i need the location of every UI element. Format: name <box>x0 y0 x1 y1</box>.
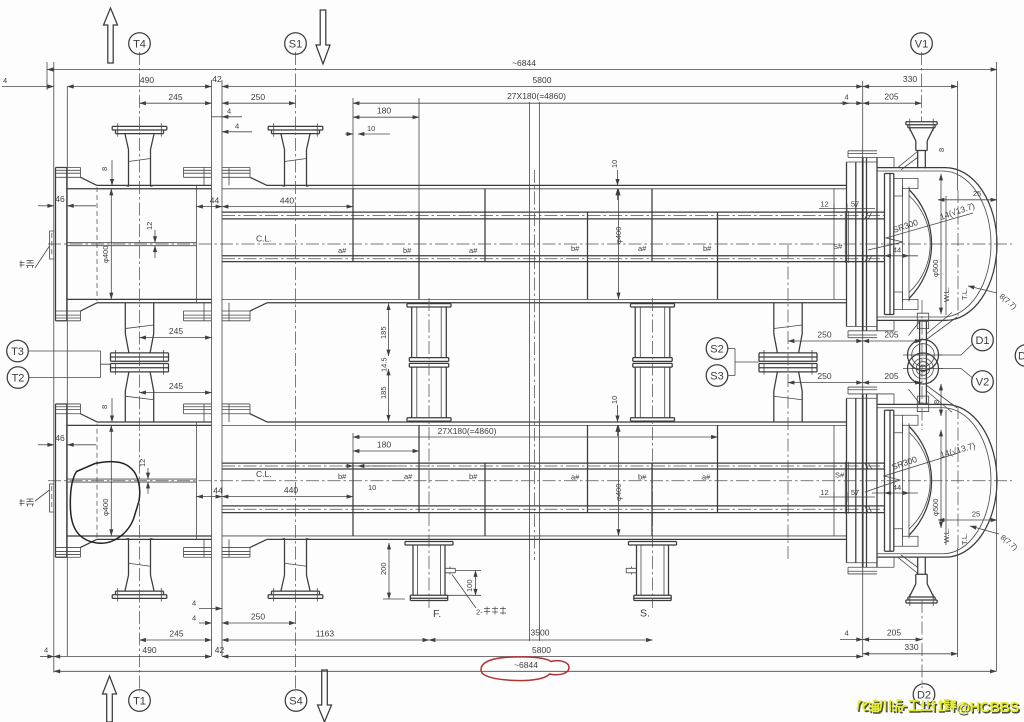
svg-text:a#: a# <box>469 246 478 255</box>
connecting pipe S weld <box>774 325 802 329</box>
nozzle T4 base fillet <box>125 185 155 186</box>
drain center ticks <box>903 355 943 369</box>
girth flange channel side stack bottom <box>184 303 212 321</box>
leader S2 S3 <box>728 349 759 376</box>
dim 200 support <box>388 543 390 599</box>
dim 12 57 head bottom <box>819 496 875 498</box>
dim 5800 bottom row <box>222 656 863 658</box>
connecting pipe T bolt ticks <box>116 350 164 361</box>
extension baffle1 top <box>353 98 419 213</box>
centerline S1-S4 <box>295 52 297 692</box>
dim 205 head top <box>863 102 922 104</box>
extension line x67 <box>66 87 68 657</box>
dim 44 head bottom <box>885 492 910 494</box>
svg-text:V2: V2 <box>976 377 989 389</box>
svg-text:4: 4 <box>845 93 849 102</box>
watermark <box>857 699 1020 718</box>
extension line left cover face <box>53 62 55 673</box>
svg-text:440: 440 <box>284 485 298 495</box>
svg-text:44: 44 <box>213 486 223 496</box>
svg-text:b#: b# <box>703 244 712 253</box>
circle S1 <box>285 33 307 55</box>
dim 250 mid lower <box>788 382 863 384</box>
dim 12 57 head top <box>819 208 875 210</box>
svg-text:490: 490 <box>140 75 154 85</box>
svg-text:42: 42 <box>215 645 225 655</box>
nozzle S1 flange <box>268 126 323 133</box>
head girth flange shell side <box>847 162 856 327</box>
dim 4 bottom b <box>199 622 212 624</box>
dim 10 bottom vessel <box>345 465 353 467</box>
svg-text:φ400: φ400 <box>101 246 110 263</box>
connecting pipe S upper <box>774 303 802 353</box>
svg-text:250: 250 <box>251 612 265 622</box>
vessel hardware group (top vessel, mirrored for bottom) <box>56 119 997 363</box>
dim 10 top <box>345 133 353 135</box>
nozzle V1 flange <box>906 122 937 128</box>
nozzle T4 neck <box>125 134 154 187</box>
riser gusset left <box>909 322 920 336</box>
svg-text:4: 4 <box>192 614 196 623</box>
TL line top <box>957 190 959 318</box>
svg-text:T4: T4 <box>133 39 146 51</box>
svg-text:W.L.: W.L. <box>942 528 951 543</box>
support S base <box>629 542 677 601</box>
circle D1 <box>972 329 994 351</box>
drain flange circles lower <box>908 353 939 384</box>
circle S3 <box>706 365 728 387</box>
extension line left outer <box>46 62 48 90</box>
svg-text:10: 10 <box>367 124 375 133</box>
pass partition plate <box>67 243 197 246</box>
svg-text:T3: T3 <box>11 346 24 358</box>
svg-text:440: 440 <box>280 196 294 206</box>
svg-text:14.5: 14.5 <box>380 357 389 372</box>
nozzle V1 neck <box>909 128 933 169</box>
extension right outer <box>996 62 998 671</box>
svg-text:200: 200 <box>379 562 388 575</box>
TL line bottom <box>957 406 959 548</box>
centerline T4-T1 <box>139 52 141 692</box>
baffle b1 <box>418 212 420 299</box>
svg-text:V1: V1 <box>915 39 928 51</box>
dim 46 top <box>38 205 54 207</box>
svg-text:b#: b# <box>469 472 478 481</box>
svg-text:245: 245 <box>168 92 182 102</box>
floating tubesheet <box>885 174 894 315</box>
svg-text:330: 330 <box>904 642 918 652</box>
svg-text:330: 330 <box>903 74 917 84</box>
rod end plates <box>845 211 848 263</box>
svg-text:25: 25 <box>972 510 980 519</box>
floating head ring <box>903 187 910 302</box>
svg-text:S#: S# <box>835 471 845 480</box>
dim 3500 bottom row <box>429 639 653 641</box>
svg-text:φ400: φ400 <box>101 499 110 516</box>
svg-text:42: 42 <box>212 74 222 84</box>
floating head clamp bottom <box>894 292 918 310</box>
hollow arrow down bottom <box>318 670 332 722</box>
girth flange channel side stack top <box>184 168 212 186</box>
dim 245 top <box>140 102 212 104</box>
svg-text:44: 44 <box>210 196 220 206</box>
svg-text:D: D <box>1018 351 1024 363</box>
main centerline top vessel <box>48 243 1012 245</box>
svg-text:D2: D2 <box>917 690 931 702</box>
svg-text:27X180(=4860): 27X180(=4860) <box>507 91 566 101</box>
dim phi400 top right <box>618 189 620 299</box>
dim 205 mid upper <box>863 340 922 342</box>
dim phi500 top <box>940 174 942 314</box>
circle T3 <box>7 340 29 362</box>
svg-text:φ500: φ500 <box>931 260 940 277</box>
nameplate text bottom <box>20 499 35 507</box>
center plates long <box>530 102 540 641</box>
girth flange shell side stack bottom <box>222 303 250 321</box>
tie rod centerlines dashed <box>222 216 884 259</box>
dim 12 partition top <box>154 230 156 243</box>
dim 44 shell top <box>197 206 223 208</box>
svg-text:12: 12 <box>138 459 147 467</box>
hollow arrow up top <box>104 8 118 63</box>
svg-text:2-: 2- <box>476 608 483 617</box>
svg-text:C.L.: C.L. <box>256 234 272 244</box>
rod end hatch <box>864 212 875 262</box>
hollow arrow down top <box>316 10 330 64</box>
shell inner lines <box>222 189 847 300</box>
circle D2 <box>913 684 935 706</box>
baffle a1 <box>352 189 354 262</box>
dim 1163 bottom row <box>222 639 429 641</box>
sealing baffle S <box>833 189 835 300</box>
nozzle S1 weld seam <box>285 159 307 162</box>
svg-text:245: 245 <box>169 326 183 336</box>
svg-text:180: 180 <box>377 106 391 116</box>
circle T2 <box>7 367 29 389</box>
extension TL x957 <box>957 81 959 657</box>
svg-text:~6844: ~6844 <box>512 58 536 68</box>
support F base <box>405 542 453 601</box>
svg-text:44: 44 <box>893 483 901 492</box>
dim 440 bottom vessel <box>222 496 353 498</box>
grounding pad glyphs <box>484 607 506 615</box>
centerline support S <box>652 298 654 608</box>
dim 4 gap a <box>212 116 223 118</box>
svg-text:245: 245 <box>169 381 183 391</box>
head girth flange head side <box>862 158 864 331</box>
circle S4 <box>285 690 307 712</box>
circle V2 <box>972 371 994 393</box>
dim 46 bottom <box>38 444 54 446</box>
dim 4 gap b <box>222 131 252 133</box>
svg-text:46: 46 <box>55 433 65 443</box>
svg-text:a#: a# <box>702 473 711 482</box>
svg-text:5800: 5800 <box>532 645 551 655</box>
label 8(7.7) bottom <box>970 526 999 534</box>
main centerline bottom vessel <box>48 480 1012 482</box>
leader grounding lug <box>452 575 476 609</box>
svg-text:T.L.: T.L. <box>960 288 969 300</box>
black circle annotation on phi400 <box>70 462 139 544</box>
svg-text:b#: b# <box>338 472 347 481</box>
nameplate bottom <box>50 484 55 512</box>
circle S2 <box>706 338 728 360</box>
svg-text:4: 4 <box>192 599 196 608</box>
dim 5800 top <box>222 86 863 88</box>
dim 185 chain <box>388 304 390 356</box>
dim 4 head top <box>840 102 863 104</box>
nozzle S1 base fillet <box>281 185 311 186</box>
extension baffle bottom vessel <box>352 433 354 464</box>
svg-text:b#: b# <box>403 246 412 255</box>
dim 27X180 top <box>353 102 849 104</box>
head flange bolt stack top <box>847 151 878 162</box>
extension pair x211/x222 <box>212 80 223 656</box>
leader V2 <box>939 369 973 378</box>
dim 440 shell top <box>222 206 353 208</box>
dim 490 bottom row <box>40 656 54 658</box>
svg-text:5800: 5800 <box>533 75 552 85</box>
svg-text:S1: S1 <box>289 39 302 51</box>
dim 8 top left <box>111 160 113 185</box>
dim phi400 top left <box>110 189 112 299</box>
dim 250 top <box>222 102 296 104</box>
svg-text:~6844: ~6844 <box>514 660 538 670</box>
baffle b2 <box>587 212 589 299</box>
dim 490 top <box>67 86 211 88</box>
girth flange shell side stack top <box>222 168 250 186</box>
svg-text:8: 8 <box>937 148 946 152</box>
nozzle V1 gusset <box>898 152 918 170</box>
WL line top <box>945 196 947 315</box>
dim 44 shell bottom vessel <box>197 496 223 498</box>
svg-text:250: 250 <box>817 330 831 340</box>
dim row B left 4 <box>2 86 54 88</box>
centerline S2S3 pipe <box>787 245 789 560</box>
svg-text:44: 44 <box>893 246 901 255</box>
dim phi500 bottom <box>940 430 942 528</box>
dim 330 bottom right <box>863 653 958 655</box>
channel tubesheet dashed <box>96 187 98 301</box>
centerline D2 <box>921 600 923 688</box>
svg-text:12: 12 <box>145 222 154 230</box>
centerline support F <box>428 298 430 608</box>
stationary tubesheet line <box>196 185 198 302</box>
svg-text:@HCBBS: @HCBBS <box>956 700 1020 716</box>
head flange ring step <box>877 158 894 331</box>
svg-text:3500: 3500 <box>531 628 550 638</box>
floating head dish outer <box>909 190 932 299</box>
head bottom riser pipe <box>920 320 927 362</box>
svg-text:10: 10 <box>610 160 619 168</box>
dim phi400 bottom left <box>110 425 112 535</box>
channel barrel <box>67 185 212 302</box>
svg-text:205: 205 <box>887 628 901 638</box>
head dome outer <box>946 168 997 321</box>
connecting pipe S flange upper <box>759 353 817 361</box>
dim row 6844 top <box>47 69 997 71</box>
SR300 leader bottom <box>865 453 958 492</box>
svg-text:C.L.: C.L. <box>256 469 272 479</box>
dim 27X180 bottom vessel <box>353 436 718 438</box>
SR300 leader <box>868 213 973 250</box>
support column 1 upper <box>407 304 451 358</box>
svg-text:12: 12 <box>820 488 828 497</box>
dim 6844 bottom row <box>54 670 997 672</box>
baffle b3 <box>717 212 719 299</box>
center dashline <box>534 170 536 560</box>
svg-text:φ400: φ400 <box>614 484 623 501</box>
connecting pipe S bolt ticks <box>764 350 812 361</box>
svg-text:12: 12 <box>820 200 828 209</box>
svg-text:4: 4 <box>235 122 239 131</box>
svg-text:a#: a# <box>638 244 647 253</box>
svg-text:a#: a# <box>338 246 347 255</box>
nozzle T4 weld seam <box>129 159 151 162</box>
circle T4 <box>129 33 151 55</box>
floating head dish inner <box>909 196 930 293</box>
svg-text:S#: S# <box>833 242 843 251</box>
channel hub slope top <box>81 177 98 311</box>
nameplate top <box>50 231 55 259</box>
WL line bottom <box>945 410 947 545</box>
svg-text:185: 185 <box>379 326 388 339</box>
circle V1 <box>911 33 933 55</box>
dim 10 shell thk top <box>617 170 619 185</box>
support column 2 mid flange <box>633 358 672 362</box>
nozzle S1 neck <box>281 134 310 187</box>
svg-text:180: 180 <box>377 440 391 450</box>
head dome inner <box>943 171 991 317</box>
svg-text:57: 57 <box>851 200 859 209</box>
svg-text:S3: S3 <box>710 371 723 383</box>
svg-text:S4: S4 <box>289 696 302 708</box>
svg-text:b#: b# <box>571 244 580 253</box>
dim 250 bottom row <box>222 622 296 624</box>
connecting pipe T flange upper <box>111 353 169 361</box>
leader T3 T2 <box>28 351 110 378</box>
dim 25 head bottom <box>938 519 997 521</box>
dim 10 shell thk bottom <box>617 405 619 422</box>
svg-text:4: 4 <box>227 107 231 116</box>
support S lug <box>626 567 636 575</box>
connecting pipe T upper <box>125 303 153 353</box>
baffle a3 <box>651 189 653 262</box>
head flange bolt stack bottom <box>847 327 878 338</box>
label 8(7.7) top <box>968 286 997 293</box>
dim phi400 bottom right <box>618 425 620 535</box>
head barrel <box>877 168 946 321</box>
dim 180 top <box>353 116 419 118</box>
svg-text:T1: T1 <box>133 696 146 708</box>
svg-text:205: 205 <box>884 92 898 102</box>
drain flange circles upper <box>908 340 939 371</box>
dim 205 mid lower <box>863 382 922 384</box>
svg-text:b#: b# <box>638 473 647 482</box>
circle D edge <box>1015 345 1024 367</box>
svg-text:S2: S2 <box>710 344 723 356</box>
svg-text:T2: T2 <box>12 373 25 385</box>
tie rod upper pair <box>222 212 885 219</box>
nozzle T4 bolt ticks <box>118 123 162 136</box>
centerline V1 <box>921 52 923 122</box>
baffle a2 <box>484 189 486 262</box>
centerline riser <box>921 300 923 430</box>
svg-text:S.: S. <box>640 608 650 620</box>
svg-text:T.L.: T.L. <box>960 533 969 545</box>
dim 180 bottom vessel <box>353 450 419 452</box>
channel cover flange left <box>56 168 67 321</box>
svg-text:10: 10 <box>610 396 619 404</box>
svg-text:205: 205 <box>884 330 898 340</box>
red circle annotation around 6844 <box>481 657 569 681</box>
svg-text:25: 25 <box>973 189 981 198</box>
connecting pipe T weld <box>125 325 153 329</box>
support F lug <box>445 567 455 575</box>
nozzle V1 bolt ticks <box>910 119 933 131</box>
svg-text:205: 205 <box>884 371 898 381</box>
svg-text:8: 8 <box>100 405 109 409</box>
svg-text:46: 46 <box>55 194 65 204</box>
shell outer lines <box>267 185 847 302</box>
support column 1 mid flange <box>409 358 448 362</box>
dim 8 riser <box>940 384 942 416</box>
dim 245 mid lower <box>140 392 212 394</box>
nameplate text top <box>20 261 35 269</box>
channel cover bolt stack bottom <box>56 311 81 321</box>
svg-text:8: 8 <box>100 167 109 171</box>
svg-text:φ400: φ400 <box>614 227 623 244</box>
leader D1 <box>939 345 973 356</box>
svg-text:a#: a# <box>404 472 413 481</box>
bottom dims layer <box>38 396 1020 672</box>
svg-text:W.L.: W.L. <box>942 287 951 302</box>
svg-text:250: 250 <box>817 371 831 381</box>
svg-text:φ500: φ500 <box>931 499 940 516</box>
dim 245 bottom row <box>140 639 212 641</box>
dim 12 partition bottom <box>147 468 149 479</box>
extension head weld x862 <box>862 81 864 657</box>
svg-text:27X180(=4860): 27X180(=4860) <box>438 426 497 436</box>
svg-text:4: 4 <box>845 629 849 638</box>
nozzle T4 flange <box>112 126 167 133</box>
dim 8 bottom left <box>111 398 113 422</box>
svg-text:a#: a# <box>571 473 580 482</box>
shell hub slope <box>250 177 267 311</box>
tie rod lower pair <box>222 256 885 262</box>
riser gusset right <box>926 313 957 340</box>
circle T1 <box>129 690 151 712</box>
svg-text:1163: 1163 <box>316 629 335 639</box>
dim 250 mid upper <box>788 340 863 342</box>
svg-text:250: 250 <box>251 92 265 102</box>
dim 25 head top <box>938 199 997 201</box>
floating head clamp top <box>894 179 918 197</box>
svg-text:57: 57 <box>851 488 859 497</box>
svg-text:4: 4 <box>3 76 7 85</box>
nozzle S1 bolt ticks <box>274 123 318 136</box>
svg-text:100: 100 <box>465 579 474 592</box>
dim 44 head <box>885 255 910 257</box>
svg-text:F.: F. <box>433 608 441 620</box>
riser flange pair <box>917 313 928 328</box>
dim 4 bottom a <box>199 608 222 610</box>
svg-text:185: 185 <box>379 386 388 399</box>
svg-text:D1: D1 <box>975 335 989 347</box>
dim 100 support <box>475 571 477 596</box>
support column 2 upper <box>631 304 675 358</box>
dim 245 mid upper <box>140 337 212 339</box>
